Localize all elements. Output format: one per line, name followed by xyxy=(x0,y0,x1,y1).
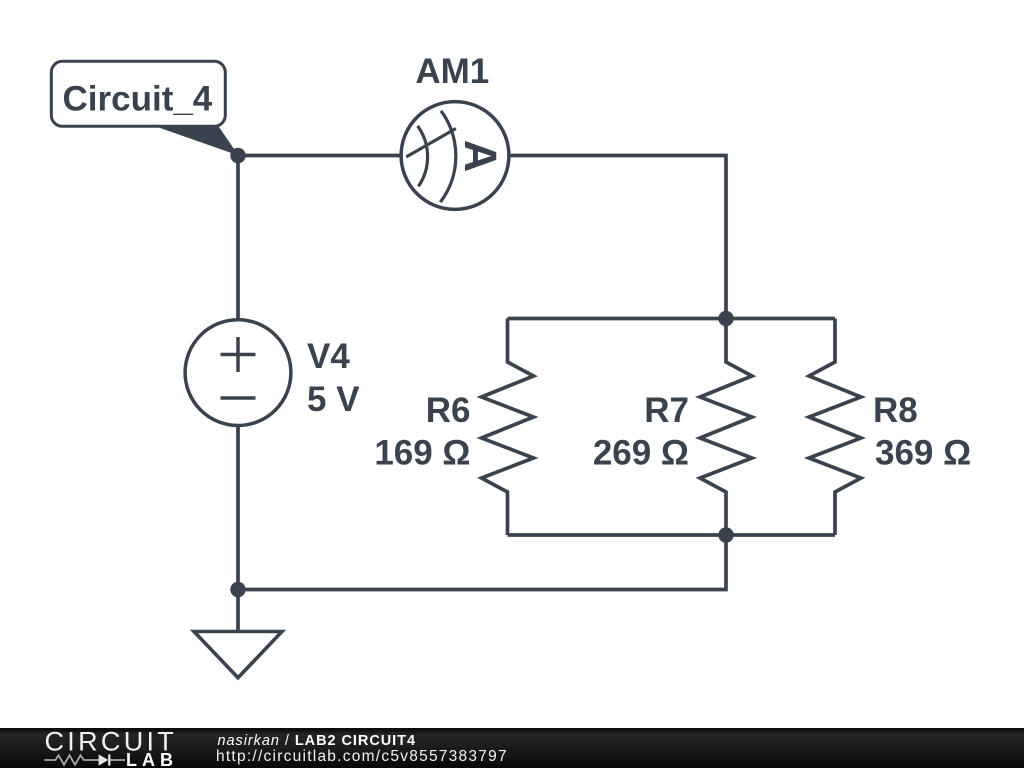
wire ground lead xyxy=(236,590,240,633)
wire bottom return xyxy=(238,535,726,590)
svg-text:R6: R6 xyxy=(426,391,471,430)
footer title xyxy=(218,734,416,748)
svg-text:R7: R7 xyxy=(644,391,689,430)
ground xyxy=(194,632,282,678)
node junction top-left xyxy=(230,148,245,163)
resistor R6 xyxy=(482,319,534,536)
svg-text:A: A xyxy=(455,140,506,173)
svg-text:169 Ω: 169 Ω xyxy=(374,434,470,473)
wire bottom bus xyxy=(508,533,836,537)
CircuitLab logo xyxy=(0,728,200,768)
ammeter AM1 xyxy=(401,102,509,210)
node junction bottom-left xyxy=(230,582,245,597)
resistor R7 xyxy=(700,319,752,536)
wire node A to ammeter xyxy=(238,154,402,158)
resistor R8 xyxy=(809,319,861,536)
node junction bottom bus xyxy=(718,527,733,542)
svg-text:V4: V4 xyxy=(307,337,350,376)
footer bar xyxy=(0,728,1024,768)
voltage source V4 xyxy=(185,320,291,426)
svg-text:369 Ω: 369 Ω xyxy=(875,434,971,473)
svg-text:LAB: LAB xyxy=(126,750,178,768)
svg-text:5 V: 5 V xyxy=(307,380,360,419)
footer url xyxy=(216,750,508,764)
net label Circuit_4 callout xyxy=(51,61,238,155)
wire V4 top lead xyxy=(236,156,240,320)
wire V4 bottom lead xyxy=(236,426,240,590)
wire top bus xyxy=(508,317,836,321)
svg-text:R8: R8 xyxy=(873,391,918,430)
svg-text:269 Ω: 269 Ω xyxy=(593,434,689,473)
svg-text:AM1: AM1 xyxy=(415,52,489,91)
wire ammeter to top-right corner xyxy=(508,156,726,319)
node junction top bus xyxy=(718,311,733,326)
svg-text:Circuit_4: Circuit_4 xyxy=(63,79,213,118)
